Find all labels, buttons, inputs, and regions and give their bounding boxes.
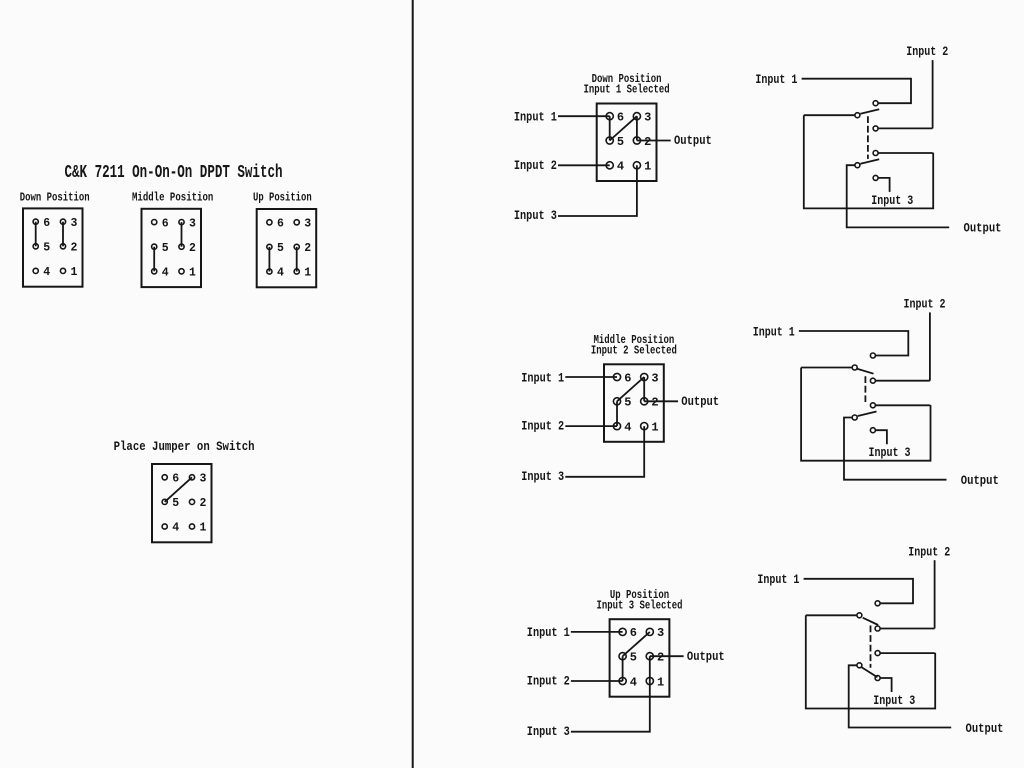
svg-text:3: 3: [651, 371, 658, 385]
svg-text:Input 1: Input 1: [527, 625, 570, 640]
svg-text:1: 1: [304, 267, 311, 280]
svg-text:6: 6: [172, 473, 179, 486]
svg-text:Input 2: Input 2: [521, 419, 564, 434]
svg-text:Input 1: Input 1: [521, 370, 564, 385]
svg-text:Output: Output: [964, 221, 1002, 236]
svg-text:Input 1 Selected: Input 1 Selected: [584, 84, 670, 97]
svg-text:Up Position: Up Position: [253, 191, 312, 204]
svg-text:1: 1: [200, 522, 207, 535]
svg-text:5: 5: [624, 396, 631, 410]
svg-text:6: 6: [630, 626, 637, 640]
svg-text:3: 3: [200, 473, 207, 486]
svg-text:2: 2: [644, 135, 651, 149]
svg-text:4: 4: [277, 267, 284, 280]
svg-text:Input 3: Input 3: [871, 193, 913, 208]
svg-text:Input 2: Input 2: [514, 158, 557, 173]
svg-text:1: 1: [71, 266, 78, 279]
svg-text:5: 5: [277, 242, 284, 255]
svg-text:6: 6: [277, 218, 284, 231]
svg-text:Place Jumper on Switch: Place Jumper on Switch: [114, 439, 255, 454]
svg-text:Down Position: Down Position: [20, 191, 90, 204]
svg-text:3: 3: [71, 217, 78, 230]
svg-text:Output: Output: [966, 721, 1004, 736]
svg-text:Input 3: Input 3: [514, 208, 557, 223]
svg-text:Input 2: Input 2: [906, 44, 948, 59]
svg-text:Input 3: Input 3: [869, 445, 911, 460]
svg-text:5: 5: [617, 135, 624, 149]
svg-text:2: 2: [651, 396, 658, 410]
svg-text:Input 2: Input 2: [908, 544, 950, 559]
svg-text:1: 1: [657, 675, 664, 689]
svg-text:Input 2 Selected: Input 2 Selected: [591, 345, 677, 358]
svg-text:Input 1: Input 1: [757, 572, 799, 587]
svg-text:2: 2: [200, 497, 207, 510]
svg-text:3: 3: [304, 218, 311, 231]
svg-text:Input 3 Selected: Input 3 Selected: [596, 599, 682, 612]
svg-text:Output: Output: [681, 394, 719, 409]
svg-text:3: 3: [644, 111, 651, 125]
svg-text:C&K 7211 On-On-On DPDT Switch: C&K 7211 On-On-On DPDT Switch: [65, 163, 283, 183]
svg-text:5: 5: [172, 497, 179, 510]
svg-text:3: 3: [657, 626, 664, 640]
svg-text:5: 5: [630, 651, 637, 665]
svg-text:4: 4: [630, 675, 637, 689]
svg-text:6: 6: [624, 371, 631, 385]
svg-text:Input 2: Input 2: [904, 297, 946, 312]
svg-text:1: 1: [651, 420, 658, 434]
svg-text:1: 1: [189, 267, 196, 280]
svg-text:3: 3: [189, 217, 196, 230]
svg-text:Input 1: Input 1: [753, 324, 795, 339]
svg-text:Input 3: Input 3: [521, 469, 564, 484]
svg-text:Middle Position: Middle Position: [132, 191, 213, 204]
svg-text:Input 3: Input 3: [873, 693, 915, 708]
svg-text:Output: Output: [961, 473, 999, 488]
svg-text:Input 3: Input 3: [527, 724, 570, 739]
svg-text:6: 6: [43, 217, 50, 230]
svg-text:5: 5: [43, 242, 50, 255]
svg-text:Output: Output: [674, 133, 712, 148]
svg-text:2: 2: [71, 242, 78, 255]
svg-text:4: 4: [162, 267, 169, 280]
svg-text:1: 1: [644, 160, 651, 174]
svg-text:Output: Output: [687, 649, 725, 664]
svg-text:4: 4: [617, 160, 624, 174]
svg-text:Input 1: Input 1: [514, 110, 557, 125]
svg-text:Input 1: Input 1: [755, 72, 797, 87]
svg-text:4: 4: [624, 420, 631, 434]
svg-text:2: 2: [304, 242, 311, 255]
svg-text:5: 5: [162, 242, 169, 255]
svg-text:2: 2: [657, 651, 664, 665]
svg-text:4: 4: [172, 522, 179, 535]
svg-text:4: 4: [43, 266, 50, 279]
svg-text:6: 6: [617, 111, 624, 125]
svg-text:6: 6: [162, 217, 169, 230]
svg-text:2: 2: [189, 242, 196, 255]
svg-text:Input 2: Input 2: [527, 674, 570, 689]
